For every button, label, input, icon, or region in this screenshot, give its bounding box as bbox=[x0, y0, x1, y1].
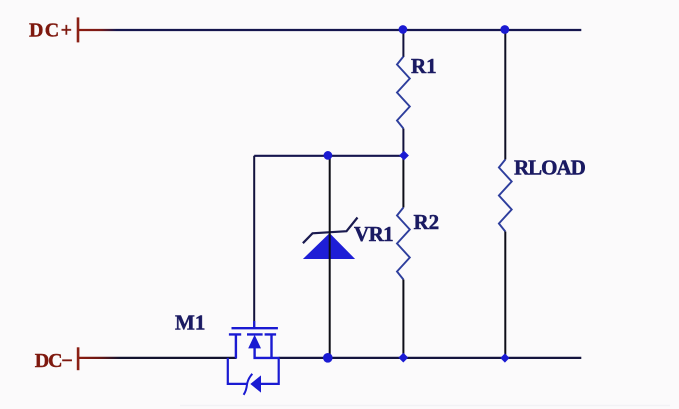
wire body diode loop right bbox=[261, 358, 279, 384]
wire bottom rail right (M1 drain to RLOAD) bbox=[279, 357, 582, 359]
wire R1 bottom stub bbox=[402, 129, 404, 156]
wire body diode loop left bbox=[228, 358, 247, 384]
junction node bottom RLOAD bbox=[500, 353, 509, 362]
transistor M1 drain lead bbox=[270, 334, 272, 358]
transistor M1 gate plate bbox=[232, 327, 278, 329]
svg-text:DC−: DC− bbox=[35, 350, 73, 372]
wire gate vertical (left) bbox=[253, 156, 255, 327]
wire R2 bottom stub bbox=[402, 280, 404, 358]
wire top rail DC+ bbox=[79, 29, 581, 31]
wire RLOAD bottom stub bbox=[504, 232, 506, 358]
wire R1 top stub bbox=[402, 30, 404, 57]
resistor R2 bbox=[397, 208, 410, 280]
wire middle node horizontal bbox=[254, 155, 403, 157]
resistor R1 bbox=[397, 57, 410, 129]
faint bottom border line bbox=[180, 405, 670, 406]
body diode triangle bbox=[250, 375, 261, 392]
junction node mid R2 bbox=[399, 151, 409, 161]
diode VR1 zener bar bbox=[303, 218, 358, 244]
port DC+ tick bbox=[77, 17, 80, 42]
wire R2 top stub bbox=[402, 156, 404, 208]
transistor M1 source lead bbox=[235, 334, 237, 358]
transistor M1 body lead bbox=[255, 347, 280, 358]
resistor RLOAD bbox=[499, 160, 512, 232]
svg-text:RLOAD: RLOAD bbox=[514, 156, 586, 180]
junction node bottom R2 bbox=[398, 353, 408, 363]
svg-text:M1: M1 bbox=[175, 311, 205, 335]
transistor M1 channel dashes bbox=[229, 333, 276, 335]
svg-text:DC+: DC+ bbox=[29, 20, 72, 42]
diode VR1 triangle bbox=[303, 233, 355, 259]
junction node top R1 bbox=[399, 25, 408, 34]
port DC- tick bbox=[77, 347, 80, 370]
transistor M1 gate pin tip bbox=[253, 321, 255, 327]
body diode zener bar bbox=[244, 374, 253, 395]
wire bottom rail left (DC- to M1 source) bbox=[79, 357, 237, 359]
svg-text:R2: R2 bbox=[414, 210, 440, 234]
junction node mid zener bbox=[324, 151, 333, 160]
svg-text:VR1: VR1 bbox=[354, 222, 393, 246]
wire RLOAD top stub bbox=[504, 30, 506, 160]
transistor M1 body arrow bbox=[248, 335, 261, 349]
wire zener vertical bbox=[329, 156, 331, 358]
junction node top RLOAD bbox=[500, 25, 509, 34]
junction node bottom zener bbox=[323, 353, 333, 363]
svg-text:R1: R1 bbox=[411, 54, 437, 78]
